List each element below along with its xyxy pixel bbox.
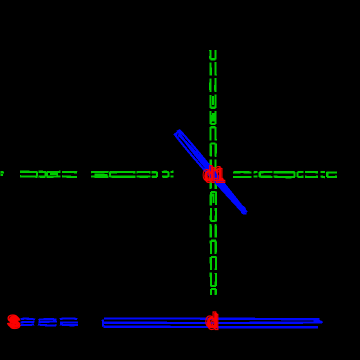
svg-text:s: s (8, 310, 20, 333)
solid segment through d (blue) (102, 318, 322, 327)
horizontal dashed axis line (green) (1, 172, 338, 177)
vertical dashed axis line (green) (210, 50, 216, 295)
diagonal segment through node d1 (blue) (174, 130, 247, 214)
svg-text:d: d (206, 311, 218, 333)
dashed segment at s (blue) (21, 319, 79, 326)
svg-text:d1: d1 (204, 164, 225, 186)
